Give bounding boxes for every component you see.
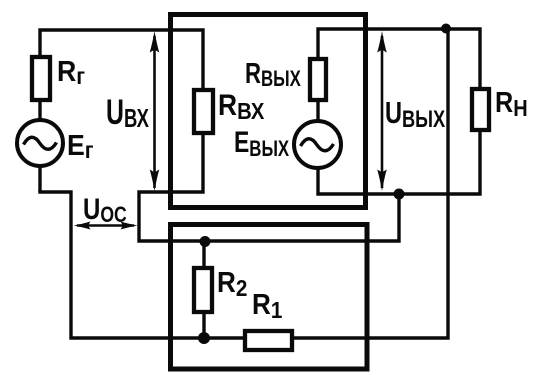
node: output top junction (441, 24, 451, 34)
node: R2 top junction (200, 236, 211, 247)
source ЕГ (17, 120, 63, 166)
svg-text:RВЫХ: RВЫХ (245, 58, 301, 91)
wire: output loop (RВЫХ, ЕВЫХ, RН) (318, 29, 480, 194)
feedback network box (171, 225, 368, 370)
svg-text:Rг: Rг (57, 55, 85, 89)
node: output bottom junction (394, 189, 405, 200)
resistor R2 (194, 268, 212, 312)
svg-text:EВЫХ: EВЫХ (234, 125, 289, 162)
svg-text:UВЫХ: UВЫХ (385, 95, 446, 133)
svg-text:RВХ: RВХ (218, 87, 265, 124)
svg-text:UВХ: UВХ (106, 94, 149, 133)
svg-text:RН: RН (495, 85, 528, 121)
arrow UВЫХ (output voltage) (377, 31, 387, 191)
svg-text:R2: R2 (217, 266, 247, 302)
arrow UВХ (input voltage) (150, 31, 160, 191)
wire: input loop (EГ top, RВХ branch, bottom return to node over output) (40, 30, 399, 241)
node: R2 bottom junction (198, 332, 210, 344)
resistor RН (472, 89, 489, 130)
arrow UОС (feedback voltage) (74, 222, 138, 230)
resistor RВЫХ (310, 59, 326, 100)
resistor RГ (32, 57, 50, 100)
amplifier four-terminal box (171, 15, 366, 208)
svg-text:R1: R1 (252, 288, 282, 324)
resistor RВХ (194, 90, 213, 133)
svg-text:Eг: Eг (67, 129, 94, 163)
wire: EГ bottom to feedback divider and up to output node (40, 29, 448, 339)
source ЕВЫХ (294, 121, 341, 168)
wire: R2 branch (202, 241, 205, 338)
resistor R1 (245, 331, 292, 350)
svg-text:UОС: UОС (83, 191, 127, 227)
